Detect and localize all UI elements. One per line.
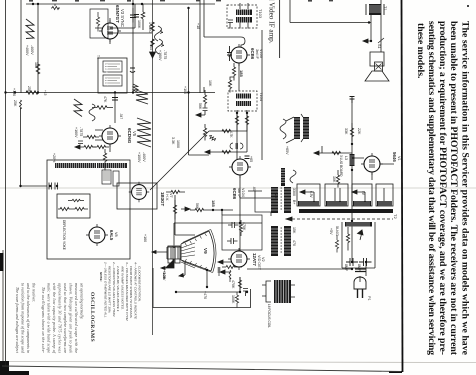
resistor R-j small top focus box [68,199,84,201]
speaker box [370,52,384,66]
CRT cathode lead [152,251,167,254]
wire top bus [26,3,215,5]
wire CRT inner V [239,277,241,292]
wire diagonal [150,131,209,190]
V3 pin wires [95,18,110,44]
tube V3 6SN7GT [99,20,121,42]
svg-text:2— CAPACITOR VALUES LESS THAN: 2— CAPACITOR VALUES LESS THAN [112,261,116,317]
rectifier box [342,222,375,268]
wire vertical D [114,93,116,123]
arrow on dashed [286,217,292,221]
wire audio H [290,22,371,24]
yoke winding comb [55,163,96,168]
svg-text:185: 185 [34,62,38,68]
tube V5 6CD6 [99,125,121,147]
svg-text:S1: S1 [377,44,381,48]
svg-text:P1: P1 [367,296,371,301]
plug P1 [354,277,366,289]
resistor R-i in focus box [72,207,88,210]
resistor R-d 1meg [151,22,155,31]
svg-text:56K: 56K [195,203,199,210]
capacitor C-b on x115 [112,98,118,101]
scurve W8 [290,170,296,183]
yoke symbol plates [168,246,173,263]
T4 shield box [98,58,127,93]
svg-text:47K: 47K [103,96,107,103]
svg-text:+140: +140 [12,88,16,96]
yoke sub box 1 [102,170,111,184]
wire audio V2 [370,15,372,41]
yoke fan lines [181,243,195,268]
svg-text:100K: 100K [137,20,141,29]
T104 coil 2 [236,101,251,106]
fold crease 2 (faint, near bottom) [0,362,476,363]
svg-text:V8: V8 [114,232,118,237]
T103 coil 2 [236,17,252,23]
connector bars [355,269,366,272]
resistor R-g left low [20,100,22,109]
svg-text:4th IF: 4th IF [237,188,241,198]
capacitor C-h + arrow [201,108,208,115]
svg-text:The service information in thi: The service information in this Servicer… [460,21,471,356]
resistor R-ifa [232,63,235,81]
scurve W6b [156,39,163,54]
resistor R-q on diagonal [209,136,216,142]
capacitor C2C [227,238,238,244]
wire focus net box [57,194,90,218]
resistor R-top on stub [51,4,60,10]
NOTE block [99,261,142,321]
wire IF column 3 [246,110,248,131]
sawtooth W5 big [137,118,151,147]
T2 combs [298,201,392,206]
T2 inside arrows [300,190,357,194]
svg-text:VERT: VERT [105,78,109,86]
svg-text:+160: +160 [143,234,147,242]
svg-text:22K: 22K [357,128,361,135]
resistor R-o left V column [203,90,206,108]
svg-text:8MF: 8MF [357,264,361,272]
svg-text:33K: 33K [344,128,348,135]
svg-text:V7: V7 [169,193,173,198]
resistor R-t h210 [190,208,213,211]
coil comb above discriminator [281,168,285,186]
svg-text:+18: +18 [196,23,200,29]
bottom thin rule [2,366,401,372]
resistor R-e with ground arrow [150,39,156,58]
svg-text:+105: +105 [183,86,187,94]
wire CRT box [153,268,251,308]
resistor R-ha [166,190,185,193]
resistor R-f V5 plate [92,106,113,110]
svg-text:T2: T2 [393,214,398,219]
svg-text:6CB6: 6CB6 [232,188,237,200]
12AT7 pins arrows [223,262,231,272]
svg-text:56K: 56K [198,103,202,110]
svg-text:-400V: -400V [30,45,34,55]
svg-text:8MF: 8MF [344,264,348,272]
svg-text:470K: 470K [231,280,235,289]
svg-text:5U4G: 5U4G [335,226,339,236]
svg-text:senting schematics and supplem: senting schematics and supplementary dat… [426,21,437,355]
svg-text:+470: +470 [203,291,207,299]
svg-text:+65: +65 [249,156,253,162]
T2 dashed line [292,218,393,220]
svg-text:been unable to present in PHOT: been unable to present in PHOTOFACT Fold… [448,21,459,356]
svg-text:NOTE:: NOTE: [99,272,103,282]
coil L-a dark [350,154,355,166]
svg-text:T4: T4 [96,55,100,59]
svg-text:approximately 30 and 7875 cycl: approximately 30 and 7875 cycles was [58,283,62,353]
capacitor C-c [130,68,135,72]
sine W3 [89,104,95,121]
resistor R-v5a [93,145,109,148]
svg-text:The wave forms and voltages ar: The wave forms and voltages are subject [15,287,19,354]
CRT base junction [206,269,208,271]
svg-text:1— UNLESS OTHERWISE NOTED ALL: 1— UNLESS OTHERWISE NOTED ALL [103,262,107,318]
resistor R-y left of box [335,235,338,253]
tube V7 1B3GT [129,182,149,202]
T1 output transformer [369,4,381,15]
wire x222 [213,210,233,215]
sawtooth W1 [26,19,34,39]
resistor R-s in box [239,220,242,236]
T4 coil 2 [103,75,122,86]
wire x175 [175,195,195,235]
svg-text:-400V: -400V [142,152,146,162]
resistor R-z2 [235,292,238,308]
focus coil bracket left [266,281,271,302]
arrow on h152 [205,150,210,154]
T103 leads [240,3,248,29]
wire grid hook [204,37,245,47]
capacitor C-d pair on y186 [49,183,58,190]
switch S1 [378,38,384,43]
wire horizontal mid bus [6,92,216,94]
focus coil leads [262,285,295,297]
svg-text:185: 185 [211,200,216,207]
tube V1 5646 [361,153,383,175]
resistor R-n on h152 [222,150,231,153]
capacitor C2B [228,222,239,228]
capacitor C-cc [78,141,83,144]
HV cage box around V7 [117,183,157,209]
black edge segment [0,253,4,271]
wire partition [152,0,154,335]
svg-text:V1: V1 [397,156,401,161]
svg-text:6CD6G: 6CD6G [127,128,132,144]
resistor R-x rect box [346,227,349,251]
wire CRT top [174,222,262,224]
resistor R-cb [80,145,96,148]
wire IF column 2 [236,110,238,159]
svg-text:+20%: +20% [52,153,56,163]
svg-text:used so that two complete wave: used so that two complete waveforms are [63,283,67,353]
discriminator transformer B [271,226,291,256]
wire yoke box [47,160,130,259]
svg-text:+100V: +100V [137,152,141,163]
resistor R-k IF [235,111,238,132]
svg-text:.05: .05 [227,52,231,57]
svg-text:6.3V: 6.3V [309,191,313,198]
capacitor C-ifa [227,46,232,61]
border rule between schematic and paragraph [402,0,403,372]
svg-text:140V: 140V [162,272,166,281]
fold crease (horizontal, faint) [0,187,476,189]
resistor R-h in focus box [58,207,72,210]
bottom rule stub [389,371,402,373]
T2 winding box 2 [325,184,348,206]
wire audio V3 [380,0,382,43]
capacitor C-v3 [134,15,139,18]
V5 pin wires [95,130,110,152]
cap C1B electrolytic [359,258,372,266]
CRT grid cap [218,267,221,276]
resistor R-z3 top right crt [222,265,242,268]
junction + arrow near speaker [363,39,371,43]
svg-text:4— ARROWS AT CONTROLS INDICATE: 4— ARROWS AT CONTROLS INDICATE [133,262,137,320]
svg-text:+160V: +160V [158,50,162,61]
T2 winding box 3 [352,184,372,206]
svg-text:DEFLECTION YOKE: DEFLECTION YOKE [62,220,66,250]
sawtooth W4 big [136,90,148,104]
rectifier comb [345,222,372,227]
svg-text:6SN7GT: 6SN7GT [115,5,120,23]
resistor R-hb [173,200,176,220]
svg-text:V103: V103 [259,49,263,58]
capacitor C-e left of T103 [228,20,233,29]
tube V8 [86,224,108,246]
svg-text:4.7K: 4.7K [229,131,233,138]
wire h152 [205,131,247,152]
resistor R-a on x38 [36,64,40,74]
resistor R-b mid bus [26,91,38,95]
wire right column 2 [365,262,367,276]
resistor R-w on h153 [332,151,341,154]
svg-text:V3 SYNC: V3 SYNC [120,9,125,27]
T4 coil 1 [103,61,122,72]
focus coil dark comb [274,280,291,303]
resistor R-v right column lower [336,170,339,188]
svg-text:set operating normally.: set operating normally. [80,283,84,319]
resistor R-c V3 grid [141,4,145,30]
svg-text:the receiver.: the receiver. [32,283,36,302]
wire left lower V [20,108,22,186]
tube V2 12AT7 [228,248,250,270]
wire left bus [5,0,7,366]
arrow R-cb [75,145,80,149]
antenna cap top [350,97,355,104]
CRT bell outline [181,231,211,271]
T2 winding box 4 [376,184,393,206]
svg-text:and to the tolerances of the c: and to the tolerances of the components … [26,283,30,353]
wire tube V1 feed [352,158,394,180]
resistor R-l IF [245,111,248,132]
sawtooth W2 [74,99,82,117]
capacitor C-a on x133 [130,8,136,23]
box small V104 right [255,198,272,212]
wire h153 right [322,146,352,153]
svg-text:to variation from response of: to variation from response of the scope … [21,283,25,353]
scurve W6 [155,26,162,41]
wire section rule [279,0,281,58]
scurve W7 [280,119,286,139]
wire audio V1 [289,0,291,23]
svg-text:10K: 10K [332,176,336,183]
T104 coil 1 [236,94,251,99]
svg-text:V104: V104 [241,188,245,197]
svg-text:VID DET: VID DET [257,255,261,271]
svg-text:HORIZ: HORIZ [105,64,109,74]
junction dots rect [351,268,353,270]
svg-text:3— VOLTAGES MEASURED WITH VTVM: 3— VOLTAGES MEASURED WITH VTVM [125,262,129,321]
resistor R-r below 12AT7 [229,270,231,282]
T2 winding box 1 [297,184,320,206]
resistor R-m on h131 [222,129,231,132]
svg-text:d Video IF amp.: d Video IF amp. [268,0,276,44]
junction dots [32,3,34,5]
T104 dashed shield box [228,91,257,111]
resistor cluster right of V5: R-ca [83,135,99,138]
arrow left h153 [314,151,322,155]
svg-text:+65V: +65V [285,146,289,155]
svg-text:.047: .047 [119,113,123,119]
svg-text:RESISTORS ARE 1/2 WATT 10%.: RESISTORS ARE 1/2 WATT 10%. [108,266,112,313]
svg-text:3300: 3300 [292,188,296,196]
CRT lower leads [161,259,174,270]
svg-text:+255: +255 [274,192,278,200]
svg-text:6CB6: 6CB6 [250,48,255,60]
svg-text:production; a requirement f: production; a requirement for PHOTOFACT … [437,21,448,355]
svg-text:10K: 10K [208,80,212,87]
T103 coil 1 [236,10,252,16]
black corner bottom-left [0,361,9,375]
wire horizontal E2 [189,154,210,156]
small sawtooth under T4 [133,84,138,93]
wire CRT inner [176,291,240,293]
svg-text:matic were taken with a wide b: matic were taken with a wide band scope [47,283,51,353]
speaker cone [365,71,389,81]
svg-text:measured on calibrated scope w: measured on calibrated scope with the [74,283,78,353]
svg-text:V9: V9 [203,248,208,254]
capacitor C-g [245,156,250,159]
wire vertical G [203,0,205,37]
svg-text:FROM POINT SHOWN TO CHASSIS.: FROM POINT SHOWN TO CHASSIS. [129,266,133,319]
svg-text:+160V: +160V [74,127,78,138]
label +105 arrow [203,87,205,92]
svg-text:5646: 5646 [392,152,397,162]
resistor R-v3in [96,12,99,32]
tube V103 6CB6 [228,44,250,66]
CRT hatch ticks [185,234,207,270]
svg-text:L6 FOCUS COIL: L6 FOCUS COIL [267,304,271,328]
wire horizontal H131 [209,130,247,132]
svg-text:V5: V5 [132,131,137,137]
svg-text:+5V: +5V [329,228,333,235]
svg-text:shown. Voltages given are peak: shown. Voltages given are peak to peak [69,283,73,353]
arrow in rect box [358,230,364,240]
wire left lower H [20,185,47,187]
inner box b [222,215,262,250]
wire horizontal H269 [247,268,352,270]
page edge line (left) [2,250,4,375]
svg-text:L3: L3 [344,156,348,160]
capacitor C-f pair under131 [230,143,243,149]
svg-text:B+: B+ [292,200,296,205]
CRT neck electrodes [167,247,181,259]
svg-text:3rd IF: 3rd IF [255,49,259,60]
svg-text:470K: 470K [242,222,246,231]
wire vertical F [199,0,201,93]
resistor R-v5b [103,149,106,171]
wire right column [351,96,353,262]
svg-text:.05: .05 [252,186,256,191]
svg-text:25K: 25K [27,86,31,93]
svg-text:100K: 100K [231,295,235,304]
capacitor C-i crt box [243,289,248,297]
yoke sub box 2 [113,171,119,186]
svg-text:1 MEG: 1 MEG [148,22,152,33]
svg-text:H.V.: H.V. [165,194,169,201]
svg-text:3.3K: 3.3K [171,137,175,145]
svg-text:T103: T103 [258,9,263,19]
svg-text:1 ARE IN MF, VALUES ABOVE 1: 1 ARE IN MF, VALUES ABOVE 1 [116,266,120,312]
svg-text:12AT7: 12AT7 [252,253,257,266]
V3 input shield box [90,9,108,38]
T2 core bar [299,209,393,213]
T103 dashed shield box [227,5,257,28]
svg-text:OSCILLOGRAMS: OSCILLOGRAMS [89,292,95,342]
svg-text:these models.: these models. [415,23,426,79]
svg-text:3 LUG BOARD: 3 LUG BOARD [339,155,343,177]
wire IF column 4 [239,175,241,251]
quadrature coil pair [286,114,309,143]
OSCILLOGRAMS block [15,283,95,354]
wire V3 plate branch [108,4,152,33]
svg-text:+15: +15 [43,90,47,96]
svg-text:25K: 25K [13,100,17,107]
wire vertical A [20,0,22,93]
resistor R-z crt box [238,277,241,292]
svg-text:T104: T104 [259,92,264,102]
wire CRT neck feed [173,223,175,248]
svg-text:V2: V2 [261,257,265,262]
tube V104 6CB6 [229,156,251,178]
wire IF column 1 [238,63,240,91]
wire video column [261,30,263,160]
svg-text:ARE IN MMF UNLESS NOTED.: ARE IN MMF UNLESS NOTED. [121,265,125,310]
svg-text:1000: 1000 [176,140,180,148]
svg-text:+105: +105 [149,42,153,50]
svg-text:1B3GT: 1B3GT [160,192,165,206]
svg-text:470: 470 [292,240,296,246]
resistor R-p left V column 2 [203,124,206,141]
resistor R-ifb [228,77,234,93]
discriminator transformer A [271,187,291,213]
svg-text:T1: T1 [383,6,387,10]
svg-text:185: 185 [239,70,244,77]
arrow R-hb [181,207,190,211]
svg-text:The oscillograms shown on: The oscillograms shown on the sche- [41,287,45,354]
wire V104 label area [248,191,262,198]
svg-text:with the low capacity probe.: with the low capacity probe. A sweep of [52,283,56,354]
svg-text:CLOCKWISE ROTATION.: CLOCKWISE ROTATION. [138,266,142,302]
wire vertical B [37,4,39,92]
svg-text:15K: 15K [292,227,296,234]
wire vertical E [188,8,190,155]
cap C1A electrolytic [346,258,358,266]
svg-text:-7875: -7875 [79,127,83,136]
